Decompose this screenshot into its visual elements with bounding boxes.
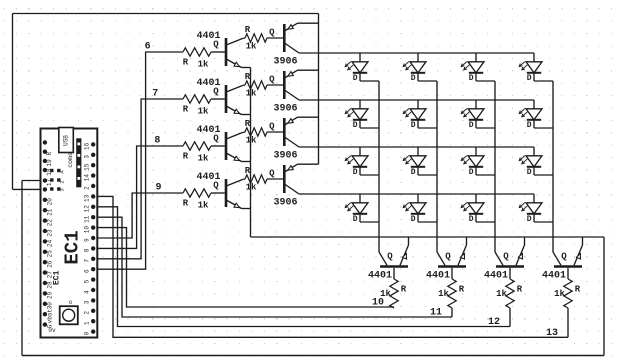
svg-text:D: D [353, 74, 358, 83]
node 10 label [372, 298, 384, 309]
node 12 label [488, 317, 500, 328]
wire Q1 collector lead [243, 37, 246, 40]
svg-text:Q: Q [269, 122, 275, 132]
svg-text:11: 11 [83, 215, 90, 223]
transistor Q12 4401 NPN (column driver) [553, 245, 583, 267]
svg-text:D: D [527, 121, 532, 130]
wire D2 cathode elbow [418, 80, 437, 82]
wire R10 tail [451, 308, 453, 317]
resistor R1 label R [183, 58, 189, 68]
svg-text:vbat: vbat [47, 309, 54, 323]
svg-text:3: 3 [83, 300, 90, 304]
svg-text:D: D [411, 121, 416, 130]
transistor Q2 label 4401 [196, 78, 220, 89]
wire R7 to Q7 base [267, 131, 283, 133]
node 8 label [154, 136, 160, 147]
svg-text:D: D [353, 121, 358, 130]
svg-text:D: D [469, 215, 474, 224]
LED D12 label D [527, 168, 532, 177]
LED D4 [519, 53, 542, 81]
svg-text:6: 6 [83, 269, 90, 273]
wire Q11 emitter to rail [524, 237, 526, 245]
transistor Q7 label Q [269, 122, 275, 132]
svg-text:2: 2 [83, 311, 90, 315]
EC1 left pin group bottom [43, 198, 47, 327]
wire GND from EC1 pin [22, 180, 45, 182]
svg-text:18: 18 [46, 168, 53, 176]
svg-text:Q: Q [269, 169, 275, 179]
resistor R11 label R [517, 285, 523, 295]
svg-text:D: D [411, 168, 416, 177]
svg-text:1k: 1k [198, 107, 209, 117]
svg-text:D: D [469, 121, 474, 130]
resistor R10 label R [459, 285, 465, 295]
svg-text:USB: USB [63, 135, 70, 146]
svg-text:D: D [527, 74, 532, 83]
transistor Q2 4401 NPN [226, 85, 243, 115]
svg-text:0: 0 [83, 331, 90, 335]
wire D5 cathode elbow [360, 127, 379, 129]
resistor R9 label R [401, 285, 407, 295]
svg-text:6: 6 [145, 42, 151, 53]
wire from pin 8 [93, 146, 183, 248]
svg-text:0v: 0v [48, 327, 56, 334]
svg-text:D: D [353, 168, 358, 177]
wire from pin 6 [93, 52, 183, 269]
transistor Q5 3906 PNP [284, 23, 299, 53]
LED D5 [345, 100, 368, 128]
svg-text:D: D [411, 74, 416, 83]
LED D3 [461, 53, 484, 81]
node 9 label [155, 183, 161, 194]
svg-text:1k: 1k [246, 89, 257, 99]
wire top-driver emitter bus [250, 68, 252, 238]
svg-text:15: 15 [83, 163, 90, 171]
svg-text:4401: 4401 [542, 271, 566, 282]
svg-text:D: D [527, 168, 532, 177]
node 13 label [546, 328, 558, 339]
LED D7 label D [469, 121, 474, 130]
transistor Q6 label Q [269, 75, 275, 85]
resistor R2 label R [183, 105, 189, 115]
LED D7 [461, 100, 484, 128]
svg-text:D: D [353, 215, 358, 224]
wire Q3 collector lead [243, 131, 246, 134]
transistor Q8 3906 PNP [284, 164, 299, 194]
svg-text:Q: Q [503, 252, 509, 262]
wire Q4 emitter to bus [242, 208, 251, 210]
wire from pin 9 [93, 193, 183, 238]
resistor R4 label 1k [198, 201, 209, 211]
LED D2 label D [411, 74, 416, 83]
svg-text:D: D [527, 215, 532, 224]
LED D15 label D [469, 215, 474, 224]
transistor Q10 label Q [445, 252, 451, 262]
svg-text:20: 20 [47, 198, 54, 206]
resistor R11 label 1k [496, 289, 507, 299]
wire D16 cathode elbow [534, 221, 553, 223]
transistor Q3 label Q [213, 134, 219, 144]
resistor R8 label R [245, 166, 251, 176]
wire D14 cathode elbow [418, 221, 437, 223]
svg-text:5: 5 [83, 279, 90, 283]
wire Q5 emitter to +V rail [298, 22, 319, 24]
svg-text:8: 8 [154, 136, 160, 147]
transistor Q5 label 3906 [273, 57, 297, 68]
svg-text:8: 8 [83, 248, 90, 252]
LED D12 [519, 147, 542, 175]
svg-text:4: 4 [83, 290, 90, 294]
svg-text:D: D [469, 74, 474, 83]
svg-text:9: 9 [83, 238, 90, 242]
svg-text:29: 29 [47, 291, 54, 299]
resistor R9 1k [390, 279, 398, 308]
transistor Q4 label Q [213, 181, 219, 191]
svg-text:2: 2 [83, 186, 90, 190]
wire row 2 line [299, 99, 534, 101]
wire Q11 base stub [509, 268, 511, 279]
wire D10 cathode elbow [418, 174, 437, 176]
resistor R5 label R [245, 25, 251, 35]
node 7 label [152, 89, 158, 100]
resistor R8 1k (base of Q8) [245, 175, 267, 183]
svg-text:13: 13 [83, 194, 90, 202]
svg-text:D: D [469, 168, 474, 177]
svg-text:Q: Q [269, 28, 275, 38]
svg-text:1: 1 [83, 321, 90, 325]
wire Q6 emitter to +V rail [298, 69, 319, 71]
wire row 4 line [299, 193, 534, 195]
wire D7 cathode elbow [476, 127, 495, 129]
LED D15 [461, 194, 484, 222]
svg-text:16: 16 [83, 142, 90, 150]
svg-text:3: 3 [83, 155, 90, 159]
svg-text:EC1: EC1 [52, 270, 61, 285]
LED D6 label D [411, 121, 416, 130]
LED D13 label D [353, 215, 358, 224]
svg-text:R: R [46, 152, 53, 156]
wire 13 from pin [93, 196, 568, 337]
LED D16 [519, 194, 542, 222]
transistor Q7 label 3906 [273, 151, 297, 162]
wire Q8 emitter to +V rail [298, 163, 319, 165]
LED D1 [345, 53, 368, 81]
node 11 label [430, 308, 442, 319]
LED D2 [403, 53, 426, 81]
LED D9 label D [353, 168, 358, 177]
wire R1 to Q1 base [211, 51, 225, 53]
resistor R12 1k [564, 279, 572, 308]
wire R4 to Q4 base [211, 192, 225, 194]
svg-text:D: D [411, 215, 416, 224]
wire D3 cathode elbow [476, 80, 495, 82]
svg-text:1k: 1k [198, 201, 209, 211]
EC1 left pin labels top [46, 152, 53, 187]
svg-text:9: 9 [155, 183, 161, 194]
svg-text:Q: Q [387, 252, 393, 262]
svg-text:coms: coms [67, 152, 74, 168]
svg-text:R: R [245, 72, 251, 82]
svg-text:7: 7 [152, 89, 158, 100]
LED D5 label D [353, 121, 358, 130]
wire Q2 emitter to bus [242, 114, 251, 116]
resistor R4 label R [183, 199, 189, 209]
resistor R12 label 1k [554, 289, 565, 299]
svg-text:Q: Q [561, 252, 567, 262]
transistor Q6 label 3906 [273, 104, 297, 115]
wire Q9 base stub [393, 268, 395, 279]
svg-text:3: 3 [59, 188, 66, 191]
wire D8 cathode elbow [534, 127, 553, 129]
wire GND left drop [21, 181, 23, 356]
wire 11 from pin [93, 217, 452, 317]
EC1 coms header [67, 138, 81, 187]
wire +V rail left drop [12, 14, 14, 190]
LED D11 label D [469, 168, 474, 177]
wire Q12 base stub [567, 268, 569, 279]
wire D6 cathode elbow [418, 127, 437, 129]
svg-text:24: 24 [47, 239, 54, 247]
wire Q12 emitter to rail [582, 237, 584, 245]
svg-text:Q: Q [445, 252, 451, 262]
transistor Q12 label 4401 [542, 271, 566, 282]
wire Q3 emitter to bus [242, 161, 251, 163]
LED D6 [403, 100, 426, 128]
wire Q2 collector lead [243, 84, 246, 87]
svg-text:1k: 1k [438, 289, 449, 299]
svg-text:28: 28 [47, 281, 54, 289]
transistor Q1 label 4401 [196, 31, 220, 42]
resistor R9 label 1k [380, 289, 391, 299]
wire Q4 collector lead [243, 178, 246, 181]
svg-text:2: 2 [59, 180, 66, 183]
svg-text:23: 23 [47, 229, 54, 237]
EC1 USB connector [59, 128, 74, 153]
svg-text:7: 7 [83, 259, 90, 263]
transistor Q12 label Q [561, 252, 567, 262]
transistor Q1 4401 NPN [226, 38, 243, 68]
wire Q7 emitter to +V rail [298, 116, 319, 118]
svg-text:4401: 4401 [426, 271, 450, 282]
wire Q10 base stub [451, 268, 453, 279]
wire D9 cathode elbow [360, 174, 379, 176]
wire GND right riser [603, 237, 605, 356]
LED D13 [345, 194, 368, 222]
EC1 aux power pads [50, 169, 65, 192]
wire R2 to Q2 base [211, 98, 225, 100]
LED D14 [403, 194, 426, 222]
svg-text:26: 26 [47, 260, 54, 268]
transistor Q11 4401 NPN (column driver) [495, 245, 525, 267]
resistor R1 label 1k [198, 60, 209, 70]
resistor R10 1k [448, 279, 456, 308]
svg-text:Q: Q [213, 87, 219, 97]
svg-text:R: R [183, 199, 189, 209]
wire row 1 line [299, 52, 534, 54]
wire R8 to Q8 base [267, 178, 283, 180]
svg-text:R: R [517, 285, 523, 295]
svg-text:1k: 1k [246, 136, 257, 146]
LED D1 label D [353, 74, 358, 83]
transistor Q7 3906 PNP [284, 117, 299, 147]
LED D8 [519, 100, 542, 128]
resistor R4 1k (base of Q4) [183, 189, 211, 197]
resistor R3 1k (base of Q3) [183, 142, 211, 150]
wire Q9 emitter to rail [408, 237, 410, 245]
LED D10 label D [411, 168, 416, 177]
EC1 right pin group [91, 142, 95, 334]
wire D4 cathode elbow [534, 80, 553, 82]
wire +V rail vertical (3906 emitters) [318, 14, 320, 165]
transistor Q6 3906 PNP [284, 70, 299, 100]
EC1 label small [52, 270, 61, 285]
wire 12 from pin [93, 207, 510, 327]
resistor R7 label R [245, 119, 251, 129]
wire D15 cathode elbow [476, 221, 495, 223]
svg-text:25: 25 [47, 250, 54, 258]
svg-text:Q: Q [213, 134, 219, 144]
wire column 3 [494, 81, 496, 252]
svg-text:12: 12 [83, 205, 90, 213]
wire R12 tail [567, 308, 569, 337]
svg-text:EC1: EC1 [62, 230, 84, 264]
svg-text:14: 14 [83, 174, 90, 182]
wire R6 to Q6 base [267, 84, 283, 86]
wire column 4 [552, 81, 554, 252]
transistor Q4 label 4401 [196, 172, 220, 183]
svg-text:10: 10 [83, 226, 90, 234]
transistor Q8 label Q [269, 169, 275, 179]
wire D1 cathode elbow [360, 80, 379, 82]
LED D11 [461, 147, 484, 175]
svg-text:Q: Q [269, 75, 275, 85]
wire column 2 [436, 81, 438, 252]
transistor Q11 label Q [503, 252, 509, 262]
wire from pin 7 [93, 99, 183, 259]
wire R3 to Q3 base [211, 145, 225, 147]
svg-text:22: 22 [47, 219, 54, 227]
svg-text:R: R [401, 285, 407, 295]
svg-text:3906: 3906 [273, 104, 297, 115]
svg-text:4401: 4401 [484, 271, 508, 282]
wire R11 tail [509, 308, 511, 327]
transistor Q2 label Q [213, 87, 219, 97]
wire GND bottom rail [22, 355, 604, 357]
transistor Q9 label Q [387, 252, 393, 262]
resistor R6 label 1k [246, 89, 257, 99]
resistor R2 1k (base of Q2) [183, 95, 211, 103]
transistor Q8 label 3906 [273, 198, 297, 209]
svg-text:21: 21 [47, 208, 54, 216]
transistor Q10 label 4401 [426, 271, 450, 282]
wire +V rail top [13, 13, 319, 15]
svg-text:1k: 1k [198, 60, 209, 70]
resistor R8 label 1k [246, 183, 257, 193]
resistor R5 1k (base of Q5) [245, 34, 267, 42]
svg-text:Q: Q [213, 181, 219, 191]
svg-text:27: 27 [47, 271, 54, 279]
svg-text:1k: 1k [246, 42, 257, 52]
svg-text:30: 30 [47, 302, 54, 310]
svg-text:R: R [245, 25, 251, 35]
wire D11 cathode elbow [476, 174, 495, 176]
wire R5 to Q5 base [267, 37, 283, 39]
wire emitter rail [251, 236, 605, 238]
resistor R11 1k [506, 279, 514, 308]
resistor R12 label R [575, 285, 581, 295]
wire Q1 emitter to bus [242, 67, 251, 69]
wire row 3 line [299, 146, 534, 148]
svg-text:R: R [245, 166, 251, 176]
svg-text:1k: 1k [246, 183, 257, 193]
resistor R6 1k (base of Q6) [245, 81, 267, 89]
EC1 left pin group top [43, 140, 47, 191]
svg-text:17: 17 [46, 179, 53, 187]
svg-text:19: 19 [46, 159, 53, 167]
resistor R2 label 1k [198, 107, 209, 117]
transistor Q10 4401 NPN (column driver) [437, 245, 467, 267]
transistor Q5 label Q [269, 28, 275, 38]
svg-text:R: R [459, 285, 465, 295]
resistor R5 label 1k [246, 42, 257, 52]
resistor R7 label 1k [246, 136, 257, 146]
wire Q10 emitter to rail [466, 237, 468, 245]
resistor R10 label 1k [438, 289, 449, 299]
svg-text:1k: 1k [554, 289, 565, 299]
LED D8 label D [527, 121, 532, 130]
wire 10 from pin [93, 228, 394, 307]
svg-text:R: R [575, 285, 581, 295]
transistor Q1 label Q [213, 40, 219, 50]
svg-text:3906: 3906 [273, 198, 297, 209]
svg-text:R: R [183, 152, 189, 162]
resistor R6 label R [245, 72, 251, 82]
EC1 label large [62, 230, 84, 264]
wire +V to EC1 5v pin [13, 188, 45, 190]
LED D16 label D [527, 215, 532, 224]
transistor Q9 label 4401 [368, 271, 392, 282]
svg-text:o: o [69, 299, 73, 306]
svg-text:R: R [183, 58, 189, 68]
LED D3 label D [469, 74, 474, 83]
LED D14 label D [411, 215, 416, 224]
svg-text:R: R [245, 119, 251, 129]
wire column 1 [378, 81, 380, 252]
resistor R3 label 1k [198, 154, 209, 164]
transistor Q9 4401 NPN (column driver) [379, 245, 409, 267]
svg-text:1k: 1k [198, 154, 209, 164]
svg-text:3906: 3906 [273, 57, 297, 68]
svg-text:Q: Q [213, 40, 219, 50]
LED D10 [403, 147, 426, 175]
node 6 label [145, 42, 151, 53]
transistor Q4 4401 NPN [226, 179, 243, 209]
EC1 left pin labels bottom [47, 198, 54, 329]
wire D12 cathode elbow [534, 174, 553, 176]
svg-text:4401: 4401 [368, 271, 392, 282]
LED D9 [345, 147, 368, 175]
resistor R3 label R [183, 152, 189, 162]
microcontroller board U1 EC1 outline [41, 129, 98, 338]
EC1 0v label [48, 327, 56, 334]
EC1 reset button [60, 299, 78, 324]
transistor Q11 label 4401 [484, 271, 508, 282]
LED D4 label D [527, 74, 532, 83]
svg-text:1k: 1k [496, 289, 507, 299]
transistor Q3 label 4401 [196, 125, 220, 136]
resistor R1 1k (base of Q1) [183, 48, 211, 56]
svg-text:3906: 3906 [273, 151, 297, 162]
